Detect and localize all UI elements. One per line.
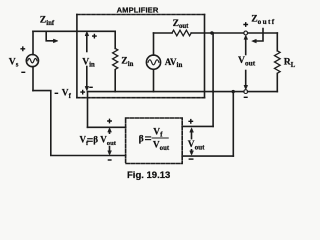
svg-text:Vout: Vout [188,140,205,151]
svg-text:Zinf: Zinf [40,15,55,27]
svg-text:Vout: Vout [238,55,256,68]
svg-text:β: β [139,134,144,145]
svg-text:Fig. 19.13: Fig. 19.13 [127,170,170,181]
svg-text:Vf: Vf [62,89,72,100]
svg-text:Zout: Zout [173,18,190,30]
svg-text:Vs: Vs [9,56,19,68]
svg-text:RL: RL [284,57,296,69]
svg-text:Vin: Vin [82,56,95,68]
svg-text:Vf: Vf [80,135,90,147]
svg-text:β Vout: β Vout [93,135,116,147]
svg-text:Zin: Zin [121,56,133,68]
svg-text:AMPLIFIER: AMPLIFIER [117,5,159,14]
svg-text:Vf: Vf [153,127,163,138]
svg-text:AVin: AVin [165,57,183,69]
svg-text:Zoutf: Zoutf [251,14,275,26]
svg-text:Vout: Vout [153,141,170,152]
